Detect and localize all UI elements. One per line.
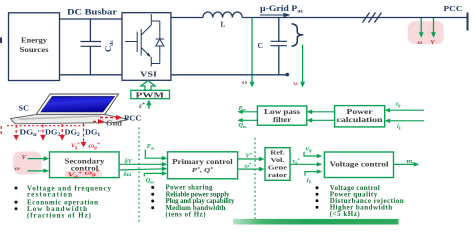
secondary control box	[50, 152, 120, 178]
svg-text:VSI: VSI	[140, 70, 157, 79]
separator dotted right	[254, 138, 256, 222]
svg-text:V: V	[22, 154, 27, 161]
low pass filter box	[257, 106, 306, 125]
PCC busbar	[467, 13, 469, 31]
svg-text:filter: filter	[273, 116, 292, 124]
delta V line	[119, 162, 167, 167]
svg-text:V*: V*	[246, 152, 253, 160]
PWM box	[131, 90, 170, 99]
arrow V into secondary	[28, 156, 50, 161]
svg-text:ω: ω	[418, 39, 423, 46]
Pm elbow into primary	[145, 150, 167, 161]
arrow omega into secondary	[28, 169, 50, 173]
svg-text:(<5 kHz): (<5 kHz)	[330, 210, 361, 218]
svg-text:Pm: Pm	[239, 105, 247, 112]
svg-text:Energy: Energy	[21, 37, 47, 45]
red dashed line DG2	[59, 124, 65, 141]
svg-text:δV: δV	[125, 158, 133, 165]
svg-text:ω*: ω*	[245, 161, 252, 169]
label DG3	[45, 128, 61, 138]
svg-text:iL: iL	[307, 176, 313, 184]
line power to lpf 1	[307, 110, 335, 115]
svg-text:Pm: Pm	[147, 143, 155, 150]
svg-text:PCC: PCC	[124, 114, 142, 123]
bullet list voltage	[316, 184, 404, 218]
svg-text:Vol.: Vol.	[271, 157, 286, 164]
delta omega line	[119, 167, 167, 172]
red dashed arrow to Grid	[93, 119, 105, 124]
svg-text:ε*: ε*	[139, 102, 145, 110]
svg-text:Qm: Qm	[239, 122, 247, 129]
label micro-grid Pac	[260, 4, 304, 15]
power input iL	[385, 119, 424, 124]
label mv	[407, 158, 416, 166]
edge artifact	[0, 38, 2, 44]
bullet list secondary	[15, 184, 112, 219]
lpf output Qm	[237, 118, 257, 123]
label wg* red	[89, 141, 101, 150]
label DG2	[65, 128, 81, 138]
iL elbow bottom	[305, 169, 322, 176]
arrow omega down	[419, 18, 424, 38]
arrow Pac	[260, 13, 291, 18]
junction dot	[286, 73, 290, 77]
svg-text:calculation: calculation	[337, 116, 383, 124]
svg-text:µ-Grid Pac: µ-Grid Pac	[260, 4, 304, 15]
vg elbow top	[304, 152, 322, 159]
ref vol generator box	[265, 148, 290, 181]
label vg top	[306, 145, 313, 153]
Qm elbow into primary	[144, 171, 167, 176]
svg-text:Primary control: Primary control	[172, 157, 233, 166]
svg-text:SC: SC	[19, 104, 30, 113]
label DGn	[20, 128, 38, 137]
svg-text:Gnd: Gnd	[106, 120, 122, 128]
svg-text:Ref.: Ref.	[270, 149, 285, 156]
wire ac main	[242, 17, 467, 19]
svg-text:L: L	[221, 21, 226, 29]
pwm block arrow	[141, 81, 155, 91]
svg-text:DC Busbar: DC Busbar	[67, 6, 117, 16]
capacitor Cdc	[81, 19, 102, 75]
energy sources box	[9, 13, 60, 81]
svg-text:vg: vg	[306, 145, 313, 153]
power calculation box	[335, 106, 385, 127]
line power to lpf 2	[307, 118, 335, 123]
omega* line	[238, 167, 265, 172]
red dashed arrow to PCC	[100, 115, 123, 120]
red dashed line DGn	[13, 125, 19, 141]
diode D1	[151, 21, 164, 64]
brace	[292, 24, 304, 46]
V* line	[238, 157, 265, 162]
svg-text:ω: ω	[15, 165, 20, 172]
label Vg* wg* in box	[67, 169, 100, 179]
svg-text:ωg*: ωg*	[89, 141, 101, 150]
pink highlight V omega	[13, 152, 42, 175]
lpf output Pm	[237, 110, 257, 115]
label DG1	[85, 128, 101, 138]
wire ac bottom	[171, 74, 288, 76]
red dashed line DG1 to secondary	[81, 124, 87, 148]
wire dc top	[60, 18, 123, 20]
wire dc bottom	[60, 74, 123, 76]
mv line	[394, 162, 420, 167]
svg-text:C: C	[258, 41, 263, 50]
sense line i	[300, 45, 305, 88]
capacitor C	[271, 41, 288, 45]
laptop SC	[11, 94, 129, 124]
svg-text:Voltage control: Voltage control	[330, 160, 389, 169]
pink highlight omega V	[408, 21, 444, 44]
svg-text:PCC: PCC	[444, 4, 463, 13]
highlight Vg wg in box	[65, 171, 102, 177]
separator dotted left	[138, 128, 140, 223]
red dashed bus under laptop	[7, 125, 86, 127]
svg-text:Sources: Sources	[20, 46, 49, 54]
svg-text:DG1: DG1	[85, 128, 101, 138]
primary control box	[168, 152, 238, 179]
svg-text:DGn: DGn	[20, 128, 38, 137]
svg-text:Vg*: Vg*	[71, 142, 80, 150]
svg-text:DG3: DG3	[45, 128, 61, 138]
bullet list primary	[151, 185, 235, 219]
wire ac top to inductor	[171, 17, 203, 19]
svg-text:rator: rator	[268, 172, 287, 179]
arrow V down	[431, 18, 436, 38]
svg-text:Power: Power	[347, 108, 374, 116]
VSI box	[122, 13, 171, 81]
red dashed line DG3	[40, 125, 46, 141]
vg* line	[290, 162, 322, 167]
label iL bottom	[307, 176, 313, 184]
svg-text:Low pass: Low pass	[264, 108, 300, 116]
svg-text:Cdc: Cdc	[103, 40, 115, 52]
voltage control box	[324, 152, 393, 178]
svg-text:iL: iL	[292, 79, 299, 87]
transistor Q1 (IGBT)	[125, 14, 151, 67]
svg-text:vg: vg	[240, 79, 247, 86]
svg-text:(tens of Hz): (tens of Hz)	[166, 212, 206, 219]
svg-text:iL: iL	[397, 123, 402, 130]
svg-text:..: ..	[38, 126, 42, 134]
svg-text:Gene: Gene	[268, 164, 287, 171]
svg-text:V: V	[431, 39, 436, 46]
power input vg	[385, 108, 424, 113]
svg-text:vg: vg	[396, 100, 402, 107]
sense line v	[250, 18, 255, 88]
wire capacitor branch	[278, 18, 280, 75]
inductor L	[203, 12, 242, 18]
pwm input arrow	[146, 100, 151, 109]
red dashed stub left edge	[0, 126, 2, 136]
svg-text:Qm: Qm	[146, 177, 154, 184]
svg-text:DG2: DG2	[65, 128, 81, 138]
svg-text:PWM: PWM	[136, 91, 165, 100]
svg-text:(fractions of Hz): (fractions of Hz)	[27, 211, 92, 219]
svg-text:δω: δω	[124, 171, 132, 178]
line impedance slashes	[363, 13, 382, 23]
